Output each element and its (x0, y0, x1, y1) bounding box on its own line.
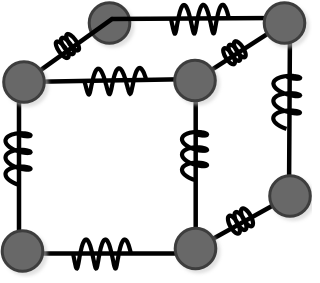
node G (bottom front-left mass) (4, 232, 48, 276)
node H (bottom front-right mass) (177, 230, 221, 274)
spring on C-A (54, 40, 71, 60)
spring on G-H (73, 240, 131, 269)
wire G-H (bottom front edge) (22, 251, 196, 256)
spring on C-D (85, 68, 147, 95)
wire H-F (right depth edge, bottom) (196, 196, 291, 249)
spring on H-F (226, 214, 243, 235)
node A (top back-left mass) (91, 4, 135, 48)
wire C-D (top front edge) (24, 79, 196, 82)
wire A-B (top back edge) (112, 18, 284, 19)
wire C-G (front left vertical edge) (17, 82, 22, 251)
node F (bottom back-right mass) (271, 177, 315, 221)
wire D-H (front middle vertical edge) (193, 81, 198, 249)
spring on B-F (273, 76, 300, 129)
spring on A-B (171, 5, 229, 34)
spring on D-H (182, 132, 207, 180)
spring on D-B (221, 46, 237, 66)
wire C-A (left depth edge) (24, 19, 112, 82)
spring on C-G (6, 133, 31, 184)
wire B-F (back right vertical edge) (289, 23, 290, 196)
node C (top front-left mass) (5, 63, 49, 107)
node D (top front-right mass) (176, 62, 220, 106)
node B (top back-right mass) (266, 4, 310, 48)
wire D-B (right depth edge, top) (195, 23, 285, 81)
